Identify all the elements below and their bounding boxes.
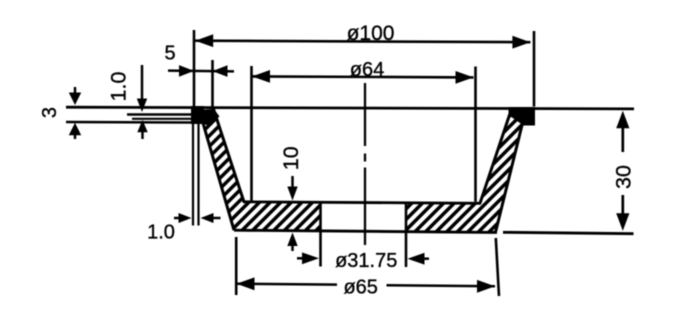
left wall inner line xyxy=(214,109,245,202)
extension line dia64 left xyxy=(250,66,253,202)
hatched left wall and bottom flat section xyxy=(203,109,321,231)
bottom reference line for 30 dim xyxy=(503,232,634,233)
sheet thickness line upper left xyxy=(127,113,192,116)
extension line dia65 right xyxy=(496,238,499,296)
extension line 5 right xyxy=(211,60,214,108)
bottom surface line xyxy=(234,230,497,232)
extension line dia65 left xyxy=(235,237,238,295)
hatched right wall and bottom flat section xyxy=(406,109,526,232)
left wall top solid patch xyxy=(204,109,220,126)
svg-text:1.0: 1.0 xyxy=(107,72,131,102)
cavity floor line xyxy=(243,202,481,204)
extension line dia100 right xyxy=(533,31,536,107)
svg-text:ø64: ø64 xyxy=(350,59,384,81)
dimension 10 (vertical, outside arrows) xyxy=(291,176,294,188)
flange underside line left xyxy=(66,121,192,124)
dimension 3 (vertical, outside arrows) xyxy=(74,87,77,95)
svg-text:5: 5 xyxy=(164,43,175,65)
left wall outer line xyxy=(203,123,234,230)
dimension line dia100 xyxy=(195,41,530,43)
extension line wall outer below flange xyxy=(192,124,194,226)
extension line dia64 right xyxy=(474,67,477,202)
extension line dia100 left / 5 left xyxy=(193,30,196,108)
svg-text:ø65: ø65 xyxy=(343,276,377,298)
dimension 30 (vertical) xyxy=(621,126,624,152)
svg-text:3: 3 xyxy=(39,107,61,118)
sheet thickness line lower left xyxy=(132,118,192,120)
right wall inner line xyxy=(480,109,512,203)
center line xyxy=(364,83,366,146)
right flange section (solid black) xyxy=(509,107,536,126)
hole right edge / extension xyxy=(405,203,408,267)
dimension line 5 (outside arrows) xyxy=(168,69,234,72)
svg-text:10: 10 xyxy=(279,146,303,170)
dimension line dia64 xyxy=(252,76,474,77)
top surface line xyxy=(66,107,634,109)
svg-text:ø31.75: ø31.75 xyxy=(335,250,397,272)
hole left edge / extension xyxy=(319,202,322,267)
svg-text:30: 30 xyxy=(612,165,636,189)
svg-text:1.0: 1.0 xyxy=(147,222,175,244)
dimension 1.0 sheet (vertical, outside arrows) xyxy=(141,65,144,99)
dimension line dia65 xyxy=(237,283,338,286)
dimension 1.0 wall (horizontal, outside arrows) xyxy=(174,217,181,220)
svg-text:ø100: ø100 xyxy=(347,22,395,45)
dimension dia31.75 (outside arrows) xyxy=(297,257,305,260)
left flange section (solid black) xyxy=(191,106,204,124)
right wall outer line xyxy=(496,111,526,232)
extension line wall inner below flange xyxy=(197,124,199,226)
